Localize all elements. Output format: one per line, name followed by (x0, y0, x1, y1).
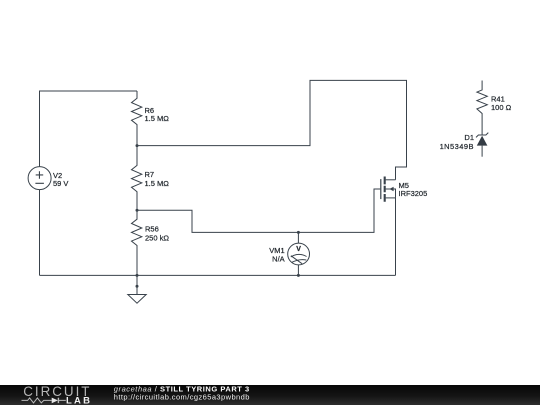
junction VM1 top dot (297, 231, 300, 234)
svg-text:IRF3205: IRF3205 (399, 189, 428, 198)
voltage source V2 (28, 167, 51, 190)
junction VM1 bottom dot (297, 274, 300, 277)
wire node B to MOSFET gate (137, 189, 380, 232)
resistor R7 (132, 146, 142, 211)
svg-text:250 kΩ: 250 kΩ (145, 233, 169, 242)
wire MOSFET source to bottom rail (395, 198, 397, 276)
junction node A dot (136, 144, 139, 147)
junction node C dot (136, 274, 139, 277)
svg-text:1N5349B: 1N5349B (440, 142, 474, 151)
wire bottom rail (40, 274, 396, 276)
wire VM1 bottom stub (297, 265, 299, 276)
svg-text:V: V (296, 246, 301, 253)
svg-text:100 Ω: 100 Ω (491, 103, 512, 112)
wire node A to MOSFET drain (137, 80, 407, 179)
resistor R41 (477, 81, 487, 136)
svg-text:1.5 MΩ: 1.5 MΩ (145, 114, 170, 123)
svg-text:LAB: LAB (66, 395, 92, 405)
svg-text:R56: R56 (145, 225, 159, 234)
svg-text:http://circuitlab.com/cgz65a3p: http://circuitlab.com/cgz65a3pwbndb (114, 393, 250, 402)
wire V2 bottom lead (39, 190, 41, 276)
svg-text:N/A: N/A (272, 255, 285, 264)
CircuitLab logo waveform and diode (22, 398, 66, 403)
resistor R6 (132, 91, 142, 146)
footer bar (0, 385, 540, 405)
svg-text:1.5 MΩ: 1.5 MΩ (145, 179, 170, 188)
ground terminal dot (136, 285, 139, 288)
zener diode D1 triangle (477, 136, 488, 146)
CircuitLab logo diode triangle (52, 398, 58, 404)
wire V2 top to R6 top (40, 91, 138, 167)
wire VM1 top stub (297, 232, 299, 243)
ground symbol (128, 295, 146, 304)
junction node B dot (136, 209, 139, 212)
svg-text:59 V: 59 V (53, 179, 68, 188)
MOSFET M5 (381, 177, 396, 202)
svg-text:D1: D1 (464, 133, 474, 142)
voltmeter VM1 (288, 243, 310, 265)
svg-text:R7: R7 (145, 170, 155, 179)
wire ground stub (136, 275, 138, 294)
zener diode D1 (476, 133, 488, 157)
resistor R56 (132, 210, 142, 275)
MOSFET M5 body arrow (389, 187, 393, 191)
